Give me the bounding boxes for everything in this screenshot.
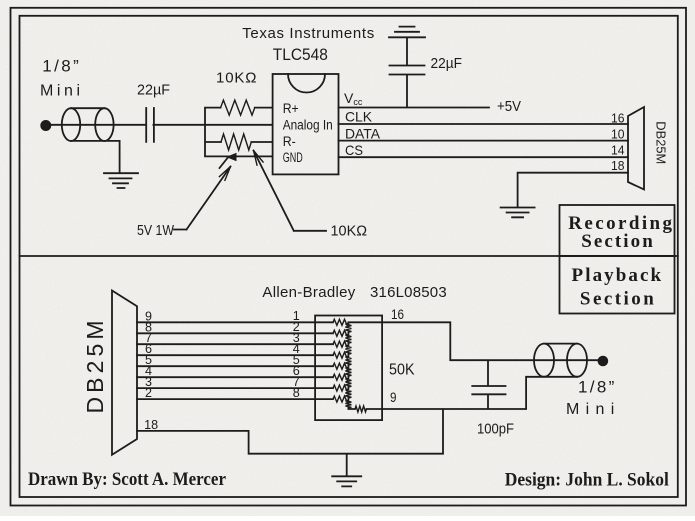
- svg-text:Design: John L. Sokol: Design: John L. Sokol: [505, 471, 669, 491]
- svg-text:50K: 50K: [389, 362, 415, 379]
- svg-text:2: 2: [145, 386, 152, 400]
- svg-text:1/8”: 1/8”: [42, 57, 79, 76]
- svg-text:16: 16: [611, 111, 625, 126]
- svg-text:316L08503: 316L08503: [370, 284, 447, 301]
- svg-text:16: 16: [391, 307, 404, 322]
- svg-text:DB25M: DB25M: [654, 121, 669, 164]
- svg-text:TLC548: TLC548: [273, 45, 328, 64]
- svg-text:22µF: 22µF: [431, 55, 463, 72]
- svg-text:1/8”: 1/8”: [578, 378, 615, 397]
- svg-text:R-: R-: [283, 134, 296, 149]
- svg-text:14: 14: [611, 143, 625, 158]
- svg-text:10KΩ: 10KΩ: [331, 223, 368, 240]
- svg-text:GND: GND: [283, 150, 303, 165]
- svg-text:CS: CS: [345, 142, 363, 158]
- svg-text:DATA: DATA: [345, 126, 381, 142]
- svg-text:22µF: 22µF: [137, 82, 170, 99]
- svg-text:Playback: Playback: [572, 265, 662, 286]
- svg-text:+5V: +5V: [497, 98, 521, 115]
- svg-text:10KΩ: 10KΩ: [216, 70, 257, 87]
- svg-text:Drawn By: Scott A. Mercer: Drawn By: Scott A. Mercer: [28, 470, 226, 490]
- svg-text:Analog In: Analog In: [283, 118, 333, 133]
- svg-text:Texas Instruments: Texas Instruments: [242, 25, 374, 42]
- svg-text:5V 1W: 5V 1W: [137, 222, 175, 239]
- svg-text:R+: R+: [283, 101, 299, 116]
- svg-text:DB25M: DB25M: [82, 321, 108, 414]
- svg-text:Allen-Bradley: Allen-Bradley: [262, 284, 355, 301]
- svg-text:18: 18: [144, 418, 158, 432]
- svg-text:CLK: CLK: [345, 109, 373, 125]
- svg-text:9: 9: [390, 390, 397, 405]
- svg-text:18: 18: [611, 158, 625, 173]
- svg-text:10: 10: [611, 127, 625, 142]
- svg-text:100pF: 100pF: [477, 421, 514, 438]
- svg-text:8: 8: [293, 386, 300, 400]
